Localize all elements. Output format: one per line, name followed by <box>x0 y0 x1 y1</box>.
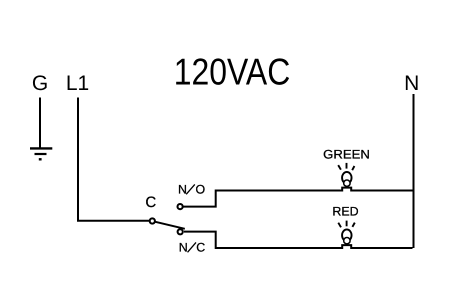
svg-text:N: N <box>178 183 187 197</box>
svg-text:O: O <box>196 183 206 197</box>
svg-text:G: G <box>32 72 48 95</box>
svg-text:C: C <box>196 241 205 255</box>
svg-text:RED: RED <box>332 205 358 219</box>
svg-text:L1: L1 <box>66 72 89 95</box>
svg-text:C: C <box>145 194 156 211</box>
svg-text:N: N <box>404 72 419 95</box>
svg-text:N: N <box>179 241 188 255</box>
svg-text:GREEN: GREEN <box>323 148 370 162</box>
svg-text:120VAC: 120VAC <box>174 51 291 93</box>
